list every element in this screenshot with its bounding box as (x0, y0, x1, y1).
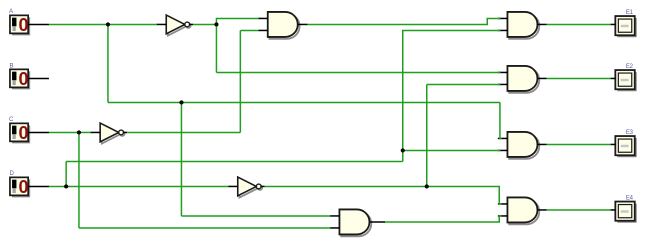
wire net A: J1 to U1 input (108, 23, 157, 25)
wire net D: across to riser x=402.3 (66, 160, 403, 162)
junction J1 (net A) (106, 22, 110, 26)
output probe E3 (LOGICPROBE) (615, 136, 636, 157)
inverter U1 (NOT on A) (156, 15, 193, 36)
pin stub of input D (28, 185, 49, 187)
svg-text:B: B (9, 64, 13, 70)
wire net NOT-A: U1 output to junction J6 (193, 23, 217, 25)
wire net NOT-C: to U4 bottom input (240, 29, 258, 31)
wire net C: J3 to U2 input (79, 131, 91, 133)
junction J6 (net NOT-A) (214, 22, 218, 26)
input switch A (LOGICSTATE) (10, 15, 30, 35)
svg-text:C: C (9, 117, 14, 123)
wire net NOT-D: J7 up to row y=84 (426, 84, 428, 186)
wire net U9 out to probe E4 (547, 209, 611, 211)
AND gate U7 (to E2) (498, 66, 539, 93)
wire net NOT-A: J6 down to row y=72 (215, 24, 217, 72)
wire net NOT-D: U3 output to junction J7 (265, 185, 427, 187)
wire net NOT-A: across to U7 top input (216, 71, 500, 73)
AND gate U4 (258, 12, 299, 39)
wire net A: J1 down to row y=102 (107, 24, 109, 102)
pin stub of probe E2 (610, 77, 615, 79)
wire net C: J3 down to row y=227.5 (78, 132, 80, 228)
wire net U8 out to probe E3 (547, 143, 611, 145)
wire net D: input D to junction J4 (49, 185, 66, 187)
wire net D: J5 east to U8 bottom input (403, 149, 501, 151)
wire net NOT-D: across to U7 bottom input (427, 83, 501, 85)
AND gate U8 (to E3) (498, 132, 539, 159)
pin stub of input B (28, 77, 49, 79)
wire net A: to U5 top input (181, 215, 330, 217)
svg-text:A: A (9, 9, 13, 15)
AND gate U6 (to E1) (498, 12, 539, 39)
svg-text:0: 0 (19, 177, 29, 197)
wire net A: across to junction J2 (108, 101, 182, 103)
wire net C: to U5 bottom input (79, 227, 331, 229)
output pin of U4 (298, 23, 308, 25)
output probe E2 (LOGICPROBE) (615, 70, 636, 91)
junction J7 (net NOT-D) (425, 184, 429, 188)
svg-text:D: D (9, 171, 14, 177)
wire net NOT-C: riser up to row y=30 (239, 30, 241, 132)
wire net D: J4 up to row y=161 (65, 161, 67, 186)
inverter U3 (NOT on D) (228, 177, 265, 197)
output pin of U5 (369, 221, 385, 223)
input switch B (LOGICSTATE) (10, 69, 30, 89)
svg-text:E4: E4 (626, 196, 634, 202)
input switch C (LOGICSTATE) (10, 123, 30, 143)
wire net A: riser down to U8 top input (500, 102, 502, 138)
pin stub of probe E4 (610, 209, 615, 211)
output pin of U6 (537, 23, 546, 25)
pin stub of probe E1 (610, 23, 615, 25)
junction J2 (net A) (179, 100, 183, 104)
wire net A: J2 east to riser x=499.5 (181, 101, 500, 103)
wire net D: riser up to junction J5 (402, 150, 404, 161)
svg-text:E1: E1 (626, 10, 634, 16)
wire net U4 out: jog up into U6 top input (307, 18, 500, 24)
wire net NOT-D: J7 east then down to U9 top input (427, 186, 502, 204)
wire net U6 out to probe E1 (547, 23, 611, 25)
svg-text:0: 0 (19, 123, 29, 143)
svg-text:0: 0 (19, 15, 29, 35)
wire net A: J2 down to row y=215.5 (180, 102, 182, 216)
svg-text:E3: E3 (626, 130, 634, 136)
junction J5 (net D) (401, 148, 405, 152)
output pin of U8 (537, 143, 546, 145)
wire net NOT-C: U2 output east (127, 131, 240, 133)
junction J3 (net C) (77, 130, 81, 134)
junction J4 (net D) (64, 184, 68, 188)
output probe E1 (LOGICPROBE) (615, 16, 636, 37)
wire net U5 out: east then up into U9 bottom input (385, 216, 501, 222)
output pin of U7 (537, 77, 546, 79)
wire net D: J4 to U3 input (66, 185, 228, 187)
AND gate U9 (to E4) (498, 197, 539, 224)
inverter U2 (NOT on C) (90, 123, 127, 143)
wire net A: input A to junction J1 (49, 23, 108, 25)
svg-text:E2: E2 (626, 64, 634, 70)
output pin of U9 (537, 209, 546, 211)
input switch D (LOGICSTATE) (10, 177, 30, 197)
wire net C: input C to junction J3 (49, 131, 79, 133)
wire net NOT-A: J6 jog up to U4 top input (216, 18, 258, 24)
wire net U7 out to probe E2 (547, 77, 611, 79)
AND gate U5 (330, 209, 371, 236)
output probe E4 (LOGICPROBE) (615, 202, 636, 223)
pin stub of input A (28, 23, 49, 25)
pin stub of probe E3 (610, 143, 615, 145)
wire net D: J5 up then to U6 bottom input (403, 30, 501, 150)
pin stub of input C (28, 131, 49, 133)
svg-text:0: 0 (19, 69, 29, 89)
